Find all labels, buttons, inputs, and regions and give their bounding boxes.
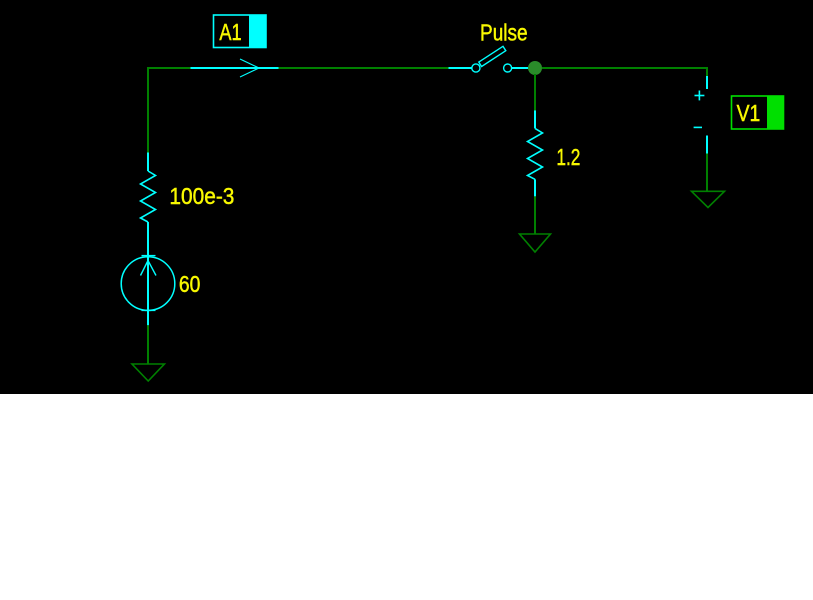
wire top-left green segment bbox=[148, 68, 191, 153]
svg-text:1.2: 1.2 bbox=[556, 144, 580, 170]
wire right branch green (voltmeter to ground) bbox=[706, 154, 708, 192]
ammeter A1 (inline current probe with arrow) bbox=[191, 59, 279, 77]
wire top-right green segment bbox=[542, 68, 707, 76]
svg-text:100e-3: 100e-3 bbox=[169, 183, 234, 209]
ground (middle) bbox=[520, 234, 551, 252]
voltmeter V1 probe (+ / - pins) bbox=[694, 76, 707, 154]
label box V1 bbox=[732, 96, 784, 129]
wire top-middle green segment bbox=[279, 67, 449, 69]
ground (right) bbox=[692, 191, 725, 207]
current source I1 bbox=[121, 256, 175, 326]
label box A1 bbox=[214, 15, 267, 48]
wire left branch green (source to ground) bbox=[147, 325, 149, 364]
wire middle branch green (dot to resistor) bbox=[534, 74, 536, 110]
wire middle branch green (resistor to ground) bbox=[534, 196, 536, 234]
junction node dot bbox=[528, 61, 542, 75]
svg-text:Pulse: Pulse bbox=[480, 20, 528, 46]
ground (left) bbox=[132, 364, 164, 381]
switch S1 (Pulse, open) bbox=[449, 46, 530, 72]
schematic canvas bbox=[0, 0, 813, 394]
resistor R1 value 100e-3 bbox=[141, 153, 156, 257]
svg-text:60: 60 bbox=[179, 271, 201, 297]
svg-text:A1: A1 bbox=[219, 19, 241, 45]
svg-text:V1: V1 bbox=[737, 100, 761, 126]
resistor R2 value 1.2 bbox=[528, 110, 543, 196]
